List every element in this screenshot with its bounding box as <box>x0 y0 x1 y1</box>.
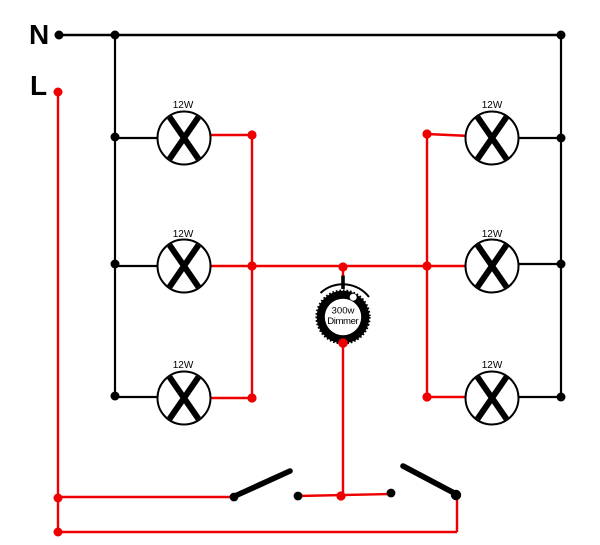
wire lamp6 red stub <box>427 396 470 398</box>
node N terminal dot <box>55 31 64 40</box>
junction lamp3 red <box>247 393 256 402</box>
junction neutral lamp3 <box>111 392 120 401</box>
junction lamp6 red <box>422 392 431 401</box>
junction neutral lamp4 <box>557 134 566 143</box>
junction switch feed <box>54 494 63 503</box>
wire live L vertical <box>57 92 59 532</box>
switch S1 pole dot <box>230 493 239 502</box>
wire dimmer feed row horizontal <box>210 265 466 267</box>
junction bottom left <box>54 528 63 537</box>
wire lamp4 neutral stub <box>514 137 561 139</box>
wire dimmer top stub <box>342 267 344 277</box>
svg-text:12W: 12W <box>173 229 194 240</box>
lamp L3 12W <box>158 372 211 425</box>
wire live bottom horizontal <box>58 531 457 533</box>
wire neutral right bus vertical <box>560 35 562 397</box>
svg-text:12W: 12W <box>482 360 503 371</box>
svg-text:L: L <box>30 70 47 101</box>
svg-text:N: N <box>29 19 49 50</box>
wire between switches <box>298 494 391 496</box>
wire lamp1 red stub <box>206 134 252 136</box>
junction neutral lamp1 <box>111 133 120 142</box>
wire lamp3 red stub <box>206 397 252 399</box>
junction switch mid <box>336 491 345 500</box>
wire neutral left bus vertical <box>114 35 116 396</box>
wire lamp3 neutral stub <box>115 396 162 398</box>
wire right lamp bus vertical <box>426 134 428 397</box>
wire left lamp bus vertical <box>251 136 253 398</box>
switch S2 throw dot <box>387 489 396 498</box>
lamp L6 12W <box>466 372 519 425</box>
wire lamp5 neutral stub <box>514 263 561 265</box>
svg-text:12W: 12W <box>482 229 503 240</box>
switch S2 pole dot <box>451 490 461 500</box>
junction lamp2 red <box>247 261 256 270</box>
wire live to switch S1 <box>58 496 234 498</box>
junction neutral top left <box>111 31 120 40</box>
junction lamp4 red <box>422 129 431 138</box>
junction lamp5 red <box>422 261 431 270</box>
node L terminal dot <box>54 88 63 97</box>
wire switch return vertical <box>456 495 458 532</box>
svg-text:12W: 12W <box>482 100 503 111</box>
junction neutral lamp6 <box>557 393 566 402</box>
dimmer U1 pointer tick <box>341 276 345 290</box>
junction neutral lamp5 <box>557 260 566 269</box>
dimmer U1 knob body <box>316 290 370 344</box>
lamp L5 12W <box>466 240 519 293</box>
svg-text:12W: 12W <box>173 100 194 111</box>
junction lamp1 red <box>247 130 256 139</box>
svg-text:Dimmer: Dimmer <box>327 316 359 327</box>
junction neutral lamp2 <box>111 260 120 269</box>
wire lamp4 red stub <box>427 134 470 136</box>
svg-text:300w: 300w <box>332 306 355 317</box>
wire neutral top horizontal <box>59 34 561 37</box>
junction neutral top right <box>557 31 566 40</box>
switch S2 blade <box>403 466 456 494</box>
svg-text:12W: 12W <box>173 360 194 371</box>
switch S1 blade <box>235 471 290 496</box>
switch S1 throw dot <box>294 492 303 501</box>
junction dimmer bottom <box>338 338 348 348</box>
lamp L1 12W <box>158 112 211 165</box>
lamp L2 12W <box>158 240 211 293</box>
wire lamp1 neutral stub <box>115 137 162 139</box>
junction dimmer top <box>338 262 347 271</box>
wire lamp2 neutral stub <box>115 265 162 267</box>
lamp L4 12W <box>466 112 519 165</box>
wire lamp6 neutral stub <box>514 396 561 398</box>
dimmer U1 rotation arc <box>321 284 370 297</box>
wire dimmer to switches vertical <box>342 344 344 496</box>
